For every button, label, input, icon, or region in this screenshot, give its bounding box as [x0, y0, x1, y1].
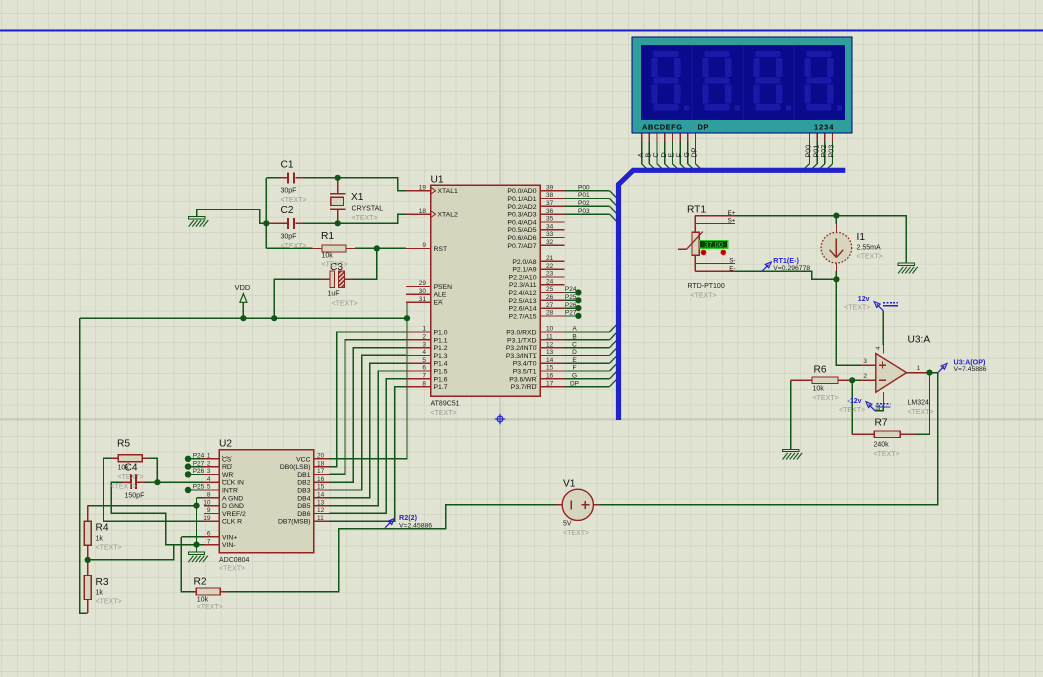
svg-text:DB0(LSB): DB0(LSB) [280, 464, 311, 471]
svg-text:VIN-: VIN- [222, 542, 236, 549]
svg-text:P25: P25 [565, 294, 577, 301]
svg-text:AT89C51: AT89C51 [431, 401, 460, 408]
svg-text:2.55mA: 2.55mA [857, 245, 881, 252]
svg-text:P0.3/AD3: P0.3/AD3 [507, 212, 536, 219]
svg-text:9: 9 [422, 242, 426, 249]
svg-text:8: 8 [207, 492, 211, 499]
svg-text:C: C [572, 341, 577, 348]
svg-text:R2: R2 [194, 577, 207, 588]
svg-text:U2: U2 [219, 439, 232, 450]
svg-text:13: 13 [546, 349, 554, 356]
svg-text:CRYSTAL: CRYSTAL [352, 206, 384, 213]
svg-text:<TEXT>: <TEXT> [281, 243, 307, 250]
svg-text:1: 1 [207, 453, 211, 460]
svg-text:10k: 10k [197, 597, 209, 604]
svg-text:DB3: DB3 [297, 488, 310, 495]
svg-text:A GND: A GND [222, 495, 243, 502]
svg-text:P2.2/A10: P2.2/A10 [509, 274, 537, 281]
svg-text:11: 11 [875, 404, 882, 411]
svg-text:3: 3 [863, 358, 867, 365]
svg-text:DB1: DB1 [297, 472, 310, 479]
svg-text:V1: V1 [563, 479, 576, 490]
svg-text:P24: P24 [193, 453, 205, 460]
svg-text:31: 31 [419, 296, 427, 303]
svg-text:28: 28 [546, 310, 554, 317]
svg-text:9: 9 [207, 507, 211, 514]
svg-text:18: 18 [419, 208, 427, 215]
svg-text:RT1(E-): RT1(E-) [773, 256, 799, 265]
svg-text:PSEN: PSEN [434, 284, 453, 291]
svg-text:P1.3: P1.3 [434, 353, 448, 360]
svg-text:36: 36 [546, 208, 554, 215]
svg-text:10k: 10k [118, 465, 130, 472]
svg-text:12: 12 [317, 507, 325, 514]
svg-text:EA: EA [434, 300, 444, 307]
svg-text:1: 1 [917, 365, 921, 372]
svg-text:-12v: -12v [848, 398, 862, 405]
svg-text:P0.0/AD0: P0.0/AD0 [507, 188, 536, 195]
svg-text:R2(2): R2(2) [399, 513, 418, 522]
svg-text:RD: RD [222, 464, 232, 471]
svg-text:<TEXT>: <TEXT> [281, 197, 307, 204]
svg-text:P3.0/RXD: P3.0/RXD [506, 330, 536, 337]
svg-text:ABCDEFG: ABCDEFG [642, 122, 683, 131]
svg-text:X1: X1 [351, 192, 364, 203]
svg-text:3: 3 [207, 468, 211, 475]
svg-text:A: A [572, 326, 577, 333]
svg-text:P1.0: P1.0 [434, 330, 448, 337]
svg-text:33: 33 [546, 231, 554, 238]
svg-text:1234: 1234 [814, 122, 834, 131]
svg-text:V=2.45886: V=2.45886 [399, 523, 432, 530]
svg-text:CLK R: CLK R [222, 519, 242, 526]
svg-text:<TEXT>: <TEXT> [857, 254, 883, 261]
svg-text:E-: E- [729, 266, 735, 273]
svg-text:E+: E+ [728, 210, 736, 217]
svg-text:VCC: VCC [296, 456, 310, 463]
svg-text:P1.7: P1.7 [434, 384, 448, 391]
svg-text:P00: P00 [578, 184, 590, 191]
svg-text:I1: I1 [857, 232, 866, 243]
svg-text:B: B [572, 334, 576, 341]
svg-text:P3.5/T1: P3.5/T1 [513, 369, 537, 376]
svg-text:ADC0804: ADC0804 [219, 557, 249, 564]
svg-text:P1.6: P1.6 [434, 376, 448, 383]
svg-text:DB4: DB4 [297, 495, 310, 502]
svg-text:CS: CS [222, 456, 232, 463]
svg-text:P3.3/INT1: P3.3/INT1 [506, 353, 537, 360]
svg-text:P2.3/A11: P2.3/A11 [509, 282, 537, 289]
svg-text:39: 39 [546, 184, 554, 191]
svg-text:19: 19 [419, 184, 427, 191]
svg-text:V=0.296778: V=0.296778 [773, 265, 810, 272]
svg-text:DP: DP [698, 122, 709, 131]
svg-text:P0.7/AD7: P0.7/AD7 [507, 243, 536, 250]
svg-text:V=7.45886: V=7.45886 [954, 366, 987, 373]
svg-text:10: 10 [203, 499, 211, 506]
svg-text:P01: P01 [578, 192, 590, 199]
svg-text:P1.5: P1.5 [434, 369, 448, 376]
svg-text:P26: P26 [565, 302, 577, 309]
svg-text:P1.4: P1.4 [434, 361, 448, 368]
svg-text:7: 7 [207, 538, 211, 545]
svg-text:DB2: DB2 [297, 480, 310, 487]
svg-text:P3.4/T0: P3.4/T0 [513, 361, 537, 368]
svg-text:INTR: INTR [222, 488, 238, 495]
svg-text:2: 2 [863, 373, 867, 380]
svg-text:<TEXT>: <TEXT> [332, 301, 358, 308]
svg-text:<TEXT>: <TEXT> [322, 262, 348, 269]
svg-text:R1: R1 [321, 231, 334, 242]
svg-text:1k: 1k [96, 536, 104, 543]
svg-text:S-: S- [729, 258, 735, 265]
svg-text:24: 24 [546, 278, 554, 285]
svg-text:P2.5/A13: P2.5/A13 [509, 298, 537, 305]
svg-text:2: 2 [422, 334, 426, 341]
svg-text:P3.6/WR: P3.6/WR [509, 376, 536, 383]
svg-text:P3.2/INT0: P3.2/INT0 [506, 345, 537, 352]
svg-text:P0.2/AD2: P0.2/AD2 [507, 204, 536, 211]
svg-text:XTAL2: XTAL2 [438, 212, 458, 219]
svg-text:15: 15 [317, 484, 325, 491]
svg-text:10k: 10k [813, 386, 825, 393]
svg-text:P2.0/A8: P2.0/A8 [512, 259, 536, 266]
svg-text:P26: P26 [193, 468, 205, 475]
svg-text:R5: R5 [117, 439, 130, 450]
svg-text:150pF: 150pF [125, 493, 145, 500]
svg-text:5: 5 [422, 357, 426, 364]
svg-text:2: 2 [207, 460, 211, 467]
svg-text:4: 4 [422, 349, 426, 356]
svg-text:10: 10 [546, 326, 554, 333]
svg-text:WR: WR [222, 472, 233, 479]
svg-text:<TEXT>: <TEXT> [908, 409, 934, 416]
svg-text:DP: DP [570, 380, 579, 387]
svg-text:<TEXT>: <TEXT> [874, 451, 900, 458]
svg-text:30: 30 [419, 288, 427, 295]
svg-text:20: 20 [317, 453, 325, 460]
svg-text:CLK IN: CLK IN [222, 480, 244, 487]
svg-text:R6: R6 [814, 365, 827, 376]
svg-text:<TEXT>: <TEXT> [431, 410, 457, 417]
svg-text:11: 11 [317, 515, 324, 522]
svg-text:32: 32 [546, 239, 554, 246]
svg-text:4: 4 [875, 346, 882, 350]
svg-text:R3: R3 [96, 577, 109, 588]
svg-text:D GND: D GND [222, 503, 244, 510]
svg-text:16: 16 [546, 373, 554, 380]
svg-text:DP: DP [690, 147, 699, 157]
svg-text:<TEXT>: <TEXT> [111, 484, 137, 491]
svg-text:6: 6 [207, 531, 211, 538]
svg-text:14: 14 [546, 357, 554, 364]
svg-text:<TEXT>: <TEXT> [118, 474, 144, 481]
svg-text:4: 4 [207, 476, 211, 483]
svg-text:<TEXT>: <TEXT> [219, 566, 245, 573]
svg-text:19: 19 [203, 515, 211, 522]
svg-text:F: F [573, 365, 577, 372]
svg-text:P2.6/A14: P2.6/A14 [509, 306, 537, 313]
svg-text:12: 12 [546, 341, 554, 348]
svg-text:DB7(MSB): DB7(MSB) [278, 519, 310, 526]
svg-text:E: E [572, 357, 577, 364]
svg-text:21: 21 [546, 255, 554, 262]
svg-text:RT1: RT1 [687, 205, 706, 216]
svg-text:38: 38 [546, 192, 554, 199]
svg-text:P25: P25 [193, 484, 205, 491]
svg-text:<TEXT>: <TEXT> [96, 599, 122, 606]
svg-text:P03: P03 [827, 145, 836, 158]
svg-text:P24: P24 [565, 286, 577, 293]
svg-text:1k: 1k [96, 590, 104, 597]
svg-text:240k: 240k [874, 442, 890, 449]
svg-text:U3:A: U3:A [908, 335, 931, 346]
svg-text:P27: P27 [193, 460, 205, 467]
svg-text:P2.1/A9: P2.1/A9 [512, 267, 536, 274]
svg-text:<TEXT>: <TEXT> [197, 604, 223, 611]
svg-text:5V: 5V [563, 521, 572, 528]
svg-text:DB6: DB6 [297, 511, 310, 518]
svg-text:18: 18 [317, 460, 325, 467]
svg-text:35: 35 [546, 216, 554, 223]
svg-text:RST: RST [434, 246, 448, 253]
svg-text:VIN+: VIN+ [222, 534, 237, 541]
svg-text:VDD: VDD [235, 283, 251, 292]
svg-text:R7: R7 [875, 418, 888, 429]
svg-text:P3.1/TXD: P3.1/TXD [507, 337, 537, 344]
svg-text:26: 26 [546, 294, 554, 301]
svg-text:P2.7/A15: P2.7/A15 [509, 313, 537, 320]
svg-text:P1.2: P1.2 [434, 345, 448, 352]
svg-text:C1: C1 [281, 160, 294, 171]
svg-text:P0.6/AD6: P0.6/AD6 [507, 235, 536, 242]
svg-text:U3:A(OP): U3:A(OP) [954, 357, 987, 366]
svg-text:U1: U1 [431, 175, 444, 186]
svg-text:D: D [572, 349, 577, 356]
svg-text:DB5: DB5 [297, 503, 310, 510]
svg-text:10k: 10k [322, 253, 334, 260]
svg-text:22: 22 [546, 263, 554, 270]
svg-text:<TEXT>: <TEXT> [96, 545, 122, 552]
svg-text:3: 3 [422, 341, 426, 348]
svg-text:G: G [572, 373, 577, 380]
svg-text:P03: P03 [578, 208, 590, 215]
svg-text:<TEXT>: <TEXT> [691, 293, 717, 300]
svg-text:P27: P27 [565, 310, 577, 317]
svg-text:30pF: 30pF [281, 234, 297, 241]
svg-text:P02: P02 [578, 200, 590, 207]
svg-text:13: 13 [317, 499, 325, 506]
svg-text:RTD-PT100: RTD-PT100 [688, 283, 725, 290]
svg-text:1: 1 [422, 326, 426, 333]
svg-text:5: 5 [207, 484, 211, 491]
svg-text:R4: R4 [96, 523, 109, 534]
svg-text:<TEXT>: <TEXT> [813, 395, 839, 402]
svg-text:37.00: 37.00 [704, 240, 723, 249]
svg-text:S+: S+ [728, 218, 736, 225]
svg-text:VREF/2: VREF/2 [222, 511, 246, 518]
svg-text:14: 14 [317, 492, 325, 499]
svg-text:17: 17 [546, 380, 554, 387]
svg-text:<TEXT>: <TEXT> [844, 305, 870, 312]
svg-text:<TEXT>: <TEXT> [839, 407, 865, 414]
svg-text:<TEXT>: <TEXT> [563, 530, 589, 537]
svg-text:7: 7 [422, 373, 426, 380]
svg-text:29: 29 [419, 280, 427, 287]
svg-text:P1.1: P1.1 [434, 337, 448, 344]
svg-text:LM324: LM324 [908, 400, 930, 407]
svg-text:P0.5/AD5: P0.5/AD5 [507, 227, 536, 234]
svg-text:27: 27 [546, 302, 554, 309]
svg-text:30pF: 30pF [281, 188, 297, 195]
svg-text:11: 11 [546, 334, 553, 341]
svg-text:15: 15 [546, 365, 554, 372]
svg-text:ALE: ALE [434, 292, 447, 299]
svg-text:6: 6 [422, 365, 426, 372]
svg-text:25: 25 [546, 286, 554, 293]
svg-text:37: 37 [546, 200, 554, 207]
svg-text:23: 23 [546, 271, 554, 278]
svg-text:1uF: 1uF [328, 291, 340, 298]
svg-text:16: 16 [317, 476, 325, 483]
svg-text:8: 8 [422, 380, 426, 387]
svg-text:<TEXT>: <TEXT> [352, 215, 378, 222]
svg-text:XTAL1: XTAL1 [438, 188, 458, 195]
svg-text:P2.4/A12: P2.4/A12 [509, 290, 537, 297]
svg-text:P3.7/RD: P3.7/RD [511, 384, 537, 391]
svg-text:P0.1/AD1: P0.1/AD1 [507, 196, 536, 203]
svg-text:17: 17 [317, 468, 325, 475]
svg-text:P0.4/AD4: P0.4/AD4 [507, 219, 536, 226]
svg-text:34: 34 [546, 223, 554, 230]
svg-text:C2: C2 [281, 205, 294, 216]
svg-text:12v: 12v [858, 296, 870, 303]
